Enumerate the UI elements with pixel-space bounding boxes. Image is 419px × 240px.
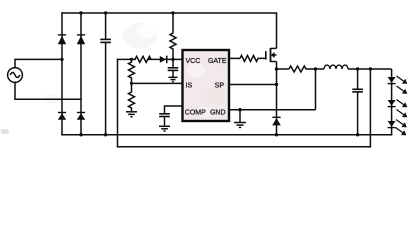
wire startup feed vertical (117, 59, 119, 146)
diode D2 (bridge top-right) (77, 34, 85, 44)
LED D9 (388, 121, 396, 128)
node IS divider (130, 82, 133, 85)
wire GND tap vertical (315, 69, 317, 110)
node sense-inductor (314, 67, 317, 70)
node bottom rail diode (275, 133, 278, 136)
svg-text:GATE: GATE (208, 58, 227, 65)
wire SP pin run (229, 84, 277, 86)
node bottom rail cap (104, 133, 107, 136)
diode D4 (bridge bottom-right) (77, 112, 85, 120)
node top rail / input cap (104, 11, 107, 14)
wire IS sense (132, 82, 183, 84)
svg-text:SP: SP (215, 82, 225, 89)
ground (COMP cap) (159, 126, 170, 131)
LED D7 arrows (397, 76, 407, 94)
capacitor C4 (output) (352, 69, 363, 135)
diode D1 (bridge top-left) (58, 34, 66, 44)
node bottom rail output cap (356, 133, 359, 136)
resistor R1 (startup, horizontal) (135, 56, 151, 62)
node bottom rail bridge (79, 133, 82, 136)
LED D8 arrows (397, 100, 407, 118)
wire AC source bottom lead (15, 82, 81, 99)
svg-text:IS: IS (186, 82, 193, 89)
ground (VCC cap) (169, 77, 178, 81)
wire GATE pin (229, 57, 240, 59)
wire sense resistor feed (277, 68, 290, 70)
wire startup node horizontal (118, 58, 174, 60)
node AC tap left (60, 58, 63, 61)
wire input cap branch upper (105, 13, 107, 39)
resistor R2 (startup chain upper) (129, 59, 135, 83)
resistor R3 (startup chain lower) (129, 83, 135, 111)
wire COMP pin (165, 106, 183, 113)
ground (IC GND) (234, 110, 246, 128)
LED D7 (388, 77, 396, 84)
wire VCC node to pin (173, 58, 183, 60)
AC source V1 (8, 68, 23, 83)
capacitor C1 (input filter) (100, 39, 111, 42)
wire input cap branch lower (105, 43, 107, 135)
wire LED string vertical (391, 69, 393, 135)
capacitor C2 (VCC bypass) (168, 59, 179, 76)
svg-text:GND: GND (210, 110, 226, 117)
capacitor C3 (COMP) (159, 114, 170, 126)
node switch source (275, 67, 278, 70)
scan smudge artifacts (1, 23, 157, 134)
svg-text:VCC: VCC (186, 58, 201, 65)
node return top (369, 67, 372, 70)
wire switch node vertical (276, 62, 278, 135)
diode D6 (freewheel) (272, 117, 281, 126)
LED D8 (388, 100, 396, 107)
transistor Q1 (MOSFET) (266, 48, 277, 62)
wire bridge left branch (61, 13, 63, 135)
resistor R5 (gate) (240, 55, 266, 61)
resistor R4 (VCC bias from rail) (170, 13, 176, 59)
wire AC source top lead (15, 59, 62, 67)
op-amp U1 (controller IC body) (183, 50, 230, 121)
ground (chain bottom) (126, 112, 137, 117)
inductor L1 (316, 68, 392, 70)
wire output return vertical (369, 69, 371, 147)
wire drain to rail (276, 13, 278, 48)
LED D9 arrows (396, 120, 407, 136)
node dots (60, 11, 372, 136)
resistor R6 (current sense) (289, 66, 316, 72)
wire GND pin run (229, 109, 316, 111)
node GND symbol tap (238, 108, 241, 111)
wire top rail (62, 12, 277, 14)
node cap top (356, 67, 359, 70)
node top rail / bridge right (79, 11, 82, 14)
wire bottom rail (62, 134, 392, 136)
diode D5 (VCC charge) (160, 56, 168, 64)
node SP junction (275, 83, 278, 86)
diode D3 (bridge bottom-left) (58, 112, 66, 120)
node startup chain top (130, 58, 133, 61)
node VCC (171, 58, 174, 61)
node top rail / bias resistor (171, 11, 174, 14)
wire bridge right branch (80, 13, 82, 135)
wire lower output rail (118, 146, 371, 148)
svg-text:COMP: COMP (185, 110, 206, 117)
